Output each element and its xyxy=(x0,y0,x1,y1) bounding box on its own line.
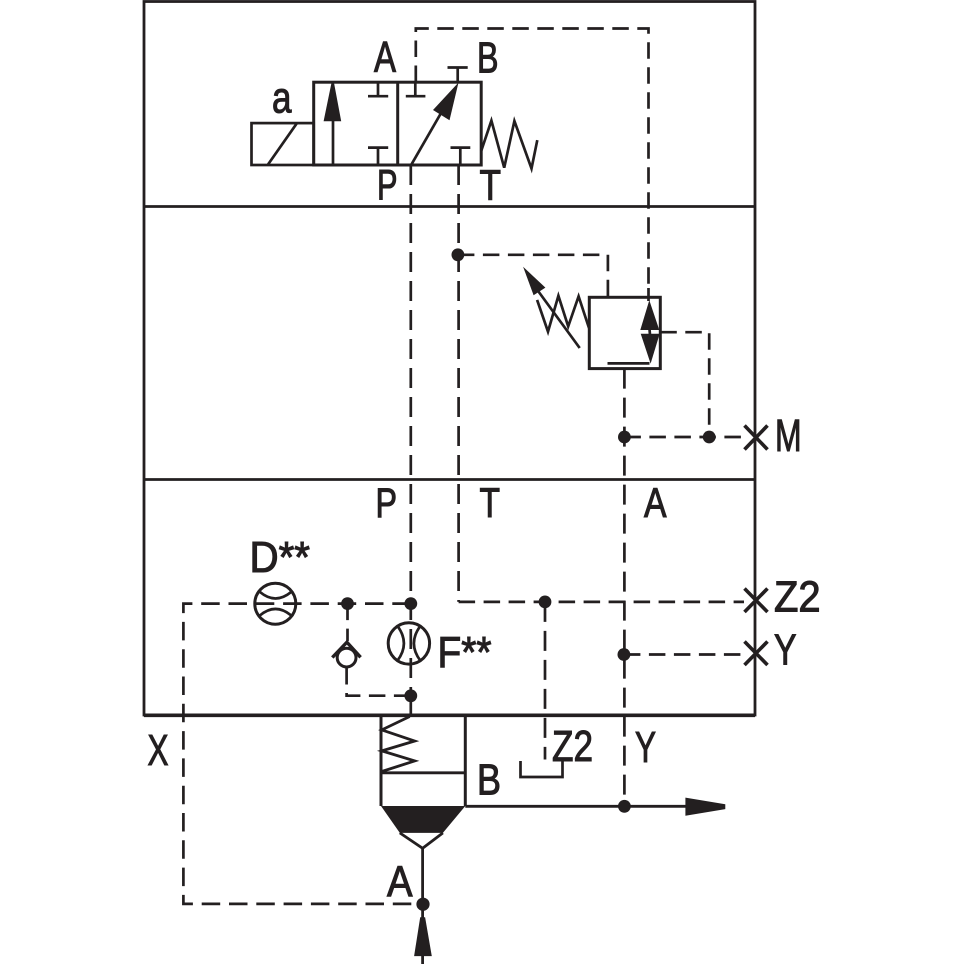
svg-text:A: A xyxy=(374,33,396,82)
node: junction A line / Y line xyxy=(618,648,631,661)
wire: Z2 drop below frame (dashed) xyxy=(544,602,547,760)
svg-text:A: A xyxy=(387,858,413,907)
wire: M gauge line (dashed horizontal) xyxy=(624,436,744,439)
outer frame xyxy=(144,2,755,716)
solid stub into relief valve arrow tip xyxy=(647,288,650,301)
relief valve poppet double arrow xyxy=(640,300,659,330)
node: junction vent / M line xyxy=(703,431,716,444)
solenoid a diagonal stroke xyxy=(268,124,297,165)
section divider 1 xyxy=(144,205,755,208)
svg-text:T: T xyxy=(480,162,502,210)
valve V1 center divider xyxy=(396,82,399,165)
cartridge seat V xyxy=(400,833,443,848)
node: junction Y drop / B line xyxy=(618,800,631,813)
valve V1 left-position flow arrow xyxy=(332,115,335,164)
relief valve adjustment arrow xyxy=(537,290,580,349)
svg-text:Y: Y xyxy=(774,626,797,675)
valve V1 right square closed port bottom-right xyxy=(451,146,471,149)
svg-text:B: B xyxy=(477,756,501,805)
plugged port Z2 bracket xyxy=(521,761,563,777)
spring of valve V1 xyxy=(481,121,537,169)
node: junction A line / M line xyxy=(618,431,631,444)
node: junction P line / check branch / cartridge pilot xyxy=(404,689,417,702)
valve V1 body xyxy=(314,82,482,165)
A flow arrow (up) xyxy=(414,917,432,956)
wire: Z2 line (dashed horizontal) xyxy=(459,601,744,604)
cartridge spring xyxy=(382,717,415,772)
valve V1 right square closed port top-left xyxy=(414,84,417,97)
relief valve DB body xyxy=(589,297,660,368)
wire: relief valve outlet down A line (dashed) xyxy=(623,369,626,807)
svg-text:X: X xyxy=(148,726,169,775)
plugged port B stub and bar xyxy=(456,68,459,83)
relief valve spring xyxy=(537,296,589,332)
node: junction Z2 line / Z2 drop xyxy=(539,596,552,609)
svg-text:P: P xyxy=(377,162,398,210)
solenoid a box xyxy=(252,123,314,165)
svg-text:T: T xyxy=(480,479,501,526)
svg-text:M: M xyxy=(775,410,802,461)
relief valve internal drain line xyxy=(608,362,650,365)
valve V1 left square closed port top xyxy=(377,84,380,97)
node: junction X line / A line xyxy=(416,898,429,911)
port Z2 X-mark xyxy=(745,589,768,613)
wire: P pilot line (dashed vertical) xyxy=(409,165,412,696)
cartridge valve body xyxy=(380,716,383,806)
node: junction D line / check valve branch xyxy=(341,597,354,610)
check valve branch lower (dashed) xyxy=(347,668,411,696)
pilot line from valve port A up and over to relief valve arrow xyxy=(416,29,649,289)
valve V1 left square closed port bottom xyxy=(368,146,388,149)
wire: X pilot line (dashed, left side) xyxy=(183,604,423,904)
node: junction D line / P line xyxy=(404,597,417,610)
orifice F xyxy=(388,623,429,664)
wire: relief valve vent to M (dashed) xyxy=(660,332,709,437)
svg-text:D**: D** xyxy=(250,533,311,582)
svg-text:B: B xyxy=(477,34,499,83)
section divider 2 xyxy=(144,478,755,481)
wire: B port line xyxy=(465,805,693,808)
svg-text:Y: Y xyxy=(635,723,656,772)
svg-text:Z2: Z2 xyxy=(774,573,821,622)
svg-text:F**: F** xyxy=(438,628,492,677)
svg-text:P: P xyxy=(376,479,398,526)
B flow arrow xyxy=(685,798,725,816)
wire: Y line (dashed horizontal) xyxy=(624,653,744,656)
port M X-mark xyxy=(745,426,768,450)
port Y X-mark xyxy=(745,642,768,666)
orifice D xyxy=(255,583,296,624)
svg-text:A: A xyxy=(644,479,667,526)
svg-text:Z2: Z2 xyxy=(552,722,593,771)
valve V1 diagonal flow arrow P to B xyxy=(412,111,443,165)
pilot line from T junction to relief valve top xyxy=(458,255,608,296)
wire: T pilot line (dashed vertical) xyxy=(457,165,460,602)
check valve xyxy=(332,642,360,657)
cartridge poppet (filled) xyxy=(381,806,465,833)
node: junction on T line feeding relief pilot xyxy=(452,248,465,261)
check valve branch (dashed) xyxy=(346,604,349,641)
svg-text:a: a xyxy=(272,74,292,123)
cartridge pilot stub xyxy=(409,696,412,716)
wire: A port line xyxy=(421,848,424,964)
